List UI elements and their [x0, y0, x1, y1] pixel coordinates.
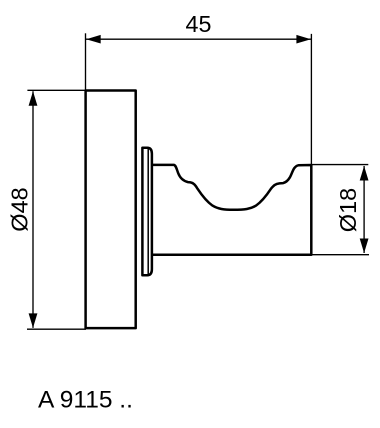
svg-text:Ø48: Ø48: [6, 187, 32, 231]
svg-text:A 9115 ..: A 9115 ..: [38, 387, 133, 414]
svg-text:45: 45: [186, 11, 212, 37]
svg-text:Ø18: Ø18: [335, 188, 361, 232]
